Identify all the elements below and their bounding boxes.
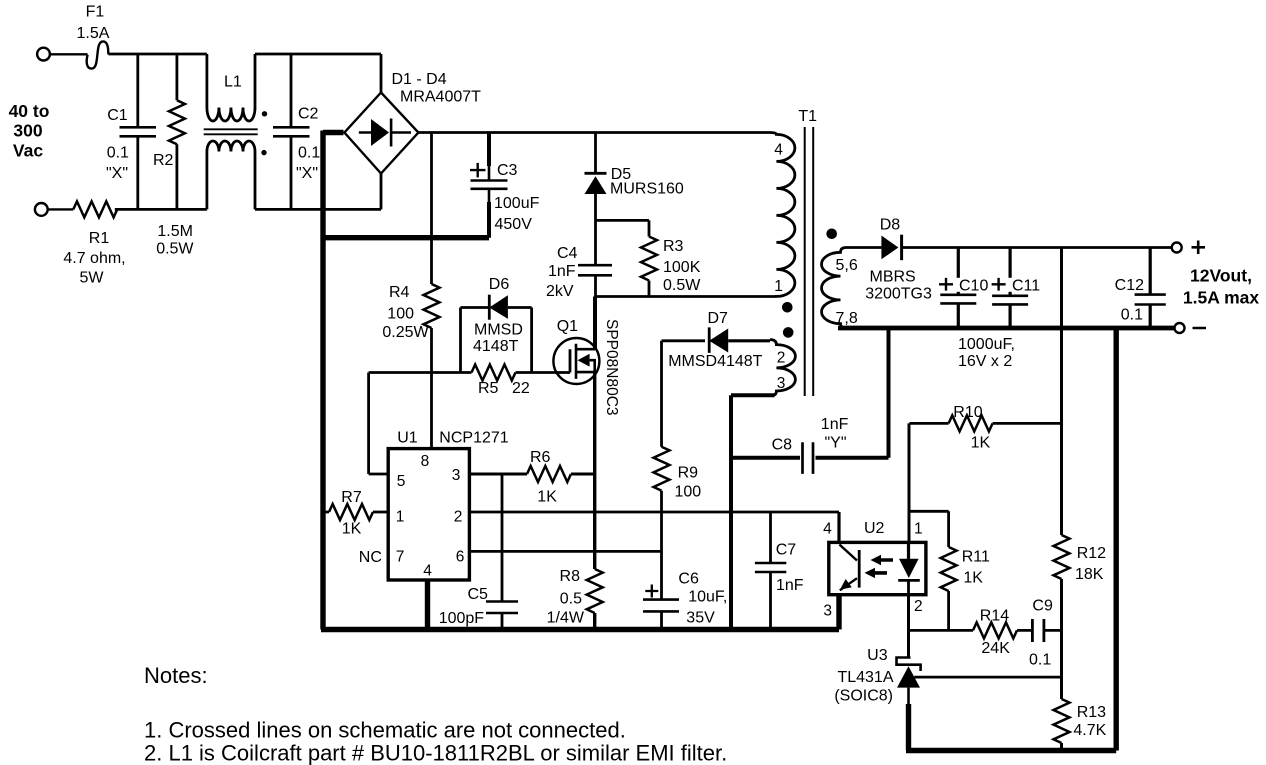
svg-text:MMSD4148T: MMSD4148T [668, 353, 762, 370]
svg-text:4: 4 [823, 521, 832, 538]
svg-text:3: 3 [777, 375, 786, 392]
svg-text:1: 1 [914, 521, 923, 538]
svg-text:(SOIC8): (SOIC8) [834, 688, 893, 705]
svg-text:0.1: 0.1 [298, 145, 320, 162]
svg-text:0.5: 0.5 [560, 591, 582, 608]
svg-text:2: 2 [777, 350, 786, 367]
svg-text:4.7K: 4.7K [1073, 722, 1106, 739]
svg-text:16V x 2: 16V x 2 [958, 353, 1012, 370]
svg-text:40 to: 40 to [9, 101, 50, 121]
svg-text:C11: C11 [1012, 278, 1040, 295]
svg-text:R5: R5 [478, 380, 499, 397]
svg-text:1nF: 1nF [548, 263, 576, 280]
svg-text:R1: R1 [89, 230, 110, 247]
svg-text:C7: C7 [776, 542, 797, 559]
svg-text:L1: L1 [224, 74, 242, 91]
svg-text:"X": "X" [106, 165, 128, 182]
svg-text:300: 300 [13, 121, 42, 141]
svg-text:1nF: 1nF [776, 577, 804, 594]
svg-text:C12: C12 [1115, 277, 1144, 294]
svg-text:C6: C6 [678, 571, 699, 588]
svg-text:2: 2 [914, 598, 923, 615]
svg-text:0.5W: 0.5W [663, 277, 701, 294]
svg-text:C5: C5 [468, 586, 489, 603]
svg-text:C4: C4 [557, 245, 578, 262]
svg-text:7: 7 [396, 549, 405, 566]
svg-text:R7: R7 [341, 489, 362, 506]
svg-text:U1: U1 [397, 429, 418, 446]
svg-text:MRA4007T: MRA4007T [400, 89, 481, 106]
svg-text:MBRS: MBRS [870, 268, 916, 285]
svg-text:1.5M: 1.5M [157, 223, 193, 240]
svg-text:TL431A: TL431A [837, 669, 893, 686]
svg-text:6: 6 [456, 549, 465, 566]
svg-text:4: 4 [774, 142, 783, 159]
svg-text:5,6: 5,6 [836, 257, 858, 274]
svg-text:Vac: Vac [13, 141, 43, 161]
svg-text:8: 8 [421, 453, 430, 470]
svg-text:R4: R4 [389, 284, 410, 301]
svg-text:1/4W: 1/4W [547, 610, 585, 627]
svg-text:5: 5 [397, 473, 406, 490]
svg-text:24K: 24K [981, 640, 1010, 657]
svg-text:R13: R13 [1077, 704, 1106, 721]
svg-text:100uF: 100uF [494, 195, 540, 212]
svg-text:T1: T1 [798, 108, 817, 125]
svg-text:100: 100 [675, 484, 702, 501]
svg-text:R6: R6 [530, 449, 551, 466]
svg-text:10uF,: 10uF, [688, 589, 727, 606]
svg-text:0.1: 0.1 [1121, 307, 1143, 324]
svg-text:100K: 100K [663, 259, 701, 276]
svg-text:R3: R3 [663, 238, 684, 255]
svg-text:5W: 5W [80, 270, 105, 287]
svg-text:2kV: 2kV [546, 283, 574, 300]
svg-text:R12: R12 [1077, 545, 1106, 562]
svg-text:1.5A: 1.5A [77, 25, 110, 42]
svg-text:"X": "X" [296, 165, 318, 182]
svg-text:C10: C10 [959, 278, 988, 295]
svg-text:MMSD: MMSD [474, 322, 523, 339]
svg-text:D6: D6 [489, 276, 510, 293]
svg-text:1K: 1K [342, 521, 362, 538]
svg-text:22: 22 [512, 380, 530, 397]
svg-text:D7: D7 [708, 310, 729, 327]
svg-text:2. L1 is Coilcraft part # BU10: 2. L1 is Coilcraft part # BU10-1811R2BL … [144, 741, 727, 765]
svg-text:1.5A max: 1.5A max [1183, 288, 1259, 308]
svg-text:R11: R11 [962, 549, 990, 566]
svg-text:0.1: 0.1 [107, 145, 129, 162]
svg-text:1K: 1K [537, 489, 557, 506]
svg-text:0.1: 0.1 [1029, 652, 1051, 669]
svg-text:Q1: Q1 [557, 318, 578, 335]
svg-text:100pF: 100pF [439, 610, 485, 627]
svg-text:18K: 18K [1075, 566, 1104, 583]
svg-text:C1: C1 [107, 107, 128, 124]
svg-text:C9: C9 [1032, 598, 1053, 615]
svg-text:NC: NC [359, 549, 382, 566]
svg-text:C8: C8 [772, 437, 793, 454]
svg-text:D1 - D4: D1 - D4 [392, 71, 447, 88]
svg-text:1000uF,: 1000uF, [958, 336, 1015, 353]
svg-text:2: 2 [454, 509, 463, 526]
svg-text:C2: C2 [298, 105, 319, 122]
svg-text:NCP1271: NCP1271 [439, 429, 508, 446]
svg-text:1: 1 [396, 509, 405, 526]
svg-text:R8: R8 [560, 568, 581, 585]
svg-text:F1: F1 [86, 4, 105, 21]
svg-text:R14: R14 [980, 608, 1009, 625]
svg-text:Notes:: Notes: [144, 663, 208, 688]
svg-text:MURS160: MURS160 [610, 181, 684, 198]
svg-text:3: 3 [823, 603, 832, 620]
svg-text:D8: D8 [880, 217, 901, 234]
svg-text:450V: 450V [495, 216, 533, 233]
svg-text:SPP08N80C3: SPP08N80C3 [603, 319, 620, 416]
svg-text:U3: U3 [867, 647, 888, 664]
svg-text:12Vout,: 12Vout, [1190, 266, 1252, 286]
svg-text:U2: U2 [864, 520, 885, 537]
svg-text:4.7 ohm,: 4.7 ohm, [63, 250, 125, 267]
svg-text:4: 4 [423, 563, 432, 580]
svg-text:1K: 1K [963, 570, 983, 587]
svg-text:R9: R9 [678, 465, 699, 482]
svg-text:4148T: 4148T [473, 338, 519, 355]
svg-text:100: 100 [387, 306, 414, 323]
svg-text:R2: R2 [153, 152, 174, 169]
svg-text:1: 1 [774, 278, 783, 295]
svg-text:35V: 35V [686, 610, 715, 627]
svg-text:C3: C3 [497, 162, 518, 179]
svg-text:3: 3 [452, 467, 461, 484]
svg-text:1K: 1K [971, 435, 991, 452]
svg-text:3200TG3: 3200TG3 [865, 285, 932, 302]
svg-text:"Y": "Y" [825, 435, 847, 452]
svg-text:0.25W: 0.25W [382, 324, 429, 341]
svg-text:R10: R10 [953, 404, 982, 421]
svg-text:7,8: 7,8 [836, 310, 858, 327]
svg-text:1. Crossed lines on schematic: 1. Crossed lines on schematic are not co… [144, 718, 626, 743]
svg-text:1nF: 1nF [821, 416, 849, 433]
svg-text:0.5W: 0.5W [156, 241, 194, 258]
